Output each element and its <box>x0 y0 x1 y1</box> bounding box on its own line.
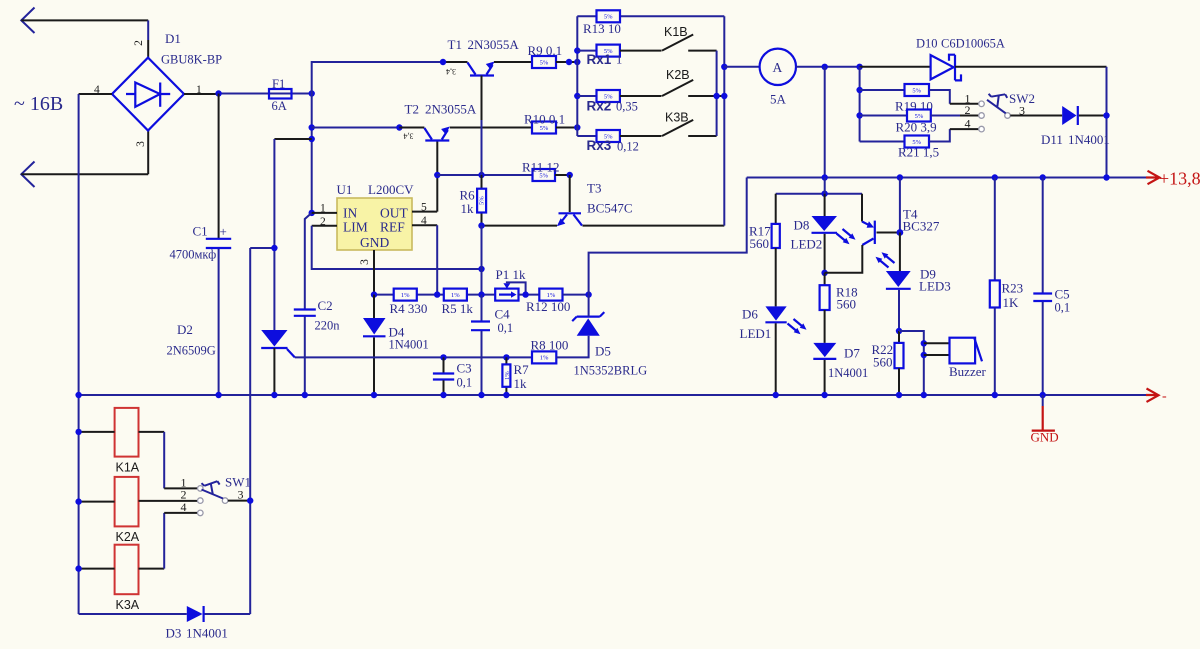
svg-text:1K: 1K <box>1003 295 1020 310</box>
svg-text:BC327: BC327 <box>903 219 940 234</box>
wire rail to LED rail <box>824 178 826 194</box>
junction <box>434 291 440 297</box>
wire R19 bus <box>859 67 861 142</box>
LED D6 <box>765 306 806 395</box>
junction <box>585 291 591 297</box>
LED D8 <box>812 194 856 273</box>
wire Rx2 to K2B <box>620 95 662 97</box>
junction <box>721 93 727 99</box>
thyristor D2 <box>261 330 295 395</box>
wire rail elbow to feedback <box>589 178 747 295</box>
wire D10 to corner <box>955 66 1107 68</box>
wire top rail to T1 <box>312 62 443 94</box>
junction <box>503 354 509 360</box>
wire buzzer leads <box>924 343 950 355</box>
wire AC1 shaft <box>21 19 148 21</box>
junction <box>822 174 828 180</box>
junction <box>75 429 81 435</box>
svg-text:D3: D3 <box>166 626 182 641</box>
junction <box>567 172 573 178</box>
svg-text:R5 1k: R5 1k <box>442 301 474 316</box>
svg-text:1N5352BRLG: 1N5352BRLG <box>574 364 648 378</box>
wire ammeter node down to rail <box>824 67 826 178</box>
svg-text:REF: REF <box>380 220 405 235</box>
relay contact K2B <box>662 80 693 96</box>
wire Rx1 to K1B <box>620 50 662 52</box>
svg-text:L200CV: L200CV <box>368 182 414 197</box>
svg-text:Buzzer: Buzzer <box>949 364 986 379</box>
junction <box>856 112 862 118</box>
capacitor C2 <box>294 213 316 395</box>
junction <box>75 498 81 504</box>
buzzer <box>950 338 983 364</box>
resistor R23 <box>990 178 1000 396</box>
junction <box>1103 174 1109 180</box>
junction <box>773 392 779 398</box>
svg-text:T2: T2 <box>405 102 419 117</box>
svg-text:T3: T3 <box>587 181 601 196</box>
schottky diode D10 <box>931 55 961 81</box>
wire T3 collector to right bus <box>583 225 725 227</box>
svg-text:D8: D8 <box>794 218 810 233</box>
wire Rx left bus <box>576 16 578 136</box>
resistor R6 <box>477 175 486 226</box>
svg-text:1: 1 <box>616 53 622 67</box>
svg-text:D5: D5 <box>595 344 611 359</box>
junction <box>302 392 308 398</box>
output arrow +13,8 <box>1146 171 1160 184</box>
switch SW1 <box>198 481 228 516</box>
svg-text:2N3055A: 2N3055A <box>425 102 477 117</box>
junction <box>992 174 998 180</box>
junction <box>1040 392 1046 398</box>
junction <box>574 59 580 65</box>
wire R21 to SW2 pin4 <box>929 129 950 141</box>
junction <box>822 64 828 70</box>
wire to D10 <box>860 66 931 68</box>
junction <box>821 392 827 398</box>
svg-text:T1: T1 <box>448 37 462 52</box>
svg-text:1N4001: 1N4001 <box>186 626 228 641</box>
wire T3 emitter <box>482 225 558 227</box>
junction <box>856 64 862 70</box>
wire bus to ammeter <box>724 66 759 68</box>
svg-text:K1B: K1B <box>664 25 688 39</box>
wire K2B right <box>688 95 724 97</box>
junction <box>478 172 484 178</box>
wire U1 pin1 <box>312 212 337 214</box>
junction <box>921 352 927 358</box>
transistor T3 <box>557 175 582 226</box>
svg-text:1%: 1% <box>451 292 460 299</box>
junction <box>371 291 377 297</box>
svg-text:U1: U1 <box>337 182 353 197</box>
resistor R22 <box>895 331 904 395</box>
junction <box>721 64 727 70</box>
svg-text:3: 3 <box>359 259 371 265</box>
resistor R12 <box>539 289 562 301</box>
svg-text:R10 0.1: R10 0.1 <box>524 112 565 127</box>
junction <box>215 90 221 96</box>
svg-text:0,1: 0,1 <box>457 376 473 390</box>
svg-text:D7: D7 <box>844 346 860 361</box>
capacitor C1 <box>206 94 231 396</box>
resistor R17 <box>772 194 780 307</box>
svg-text:R13 10: R13 10 <box>583 21 621 36</box>
wire bridge pin3 lead <box>147 131 149 175</box>
resistor R18 <box>820 273 830 343</box>
wire contacts inner bus <box>716 51 718 136</box>
wire T2 collector <box>312 127 400 129</box>
resistor R5 <box>444 289 467 301</box>
relay contact K1B <box>662 35 693 51</box>
svg-text:1%: 1% <box>547 292 556 299</box>
svg-text:LED3: LED3 <box>919 279 951 294</box>
svg-text:1%: 1% <box>401 292 410 299</box>
svg-text:Rx1: Rx1 <box>587 52 612 67</box>
svg-text:D6: D6 <box>742 307 758 322</box>
wire U1 pin4 REF <box>412 224 437 226</box>
svg-text:BC547C: BC547C <box>587 201 633 216</box>
wire P1 to R12 <box>519 294 540 296</box>
ground rail <box>79 394 1146 396</box>
svg-text:R12 100: R12 100 <box>526 299 570 314</box>
resistor Rx3 <box>597 130 620 142</box>
transistor T4 <box>825 194 900 273</box>
svg-text:1k: 1k <box>514 376 528 391</box>
junction <box>1040 174 1046 180</box>
wire AC2 shaft <box>21 173 148 175</box>
svg-text:2N3055A: 2N3055A <box>468 37 520 52</box>
diode D11 <box>1062 106 1078 125</box>
svg-text:K3B: K3B <box>665 110 689 124</box>
svg-text:1N4001: 1N4001 <box>389 338 429 352</box>
junction <box>574 93 580 99</box>
wire K1A to SW1 pin1 <box>139 431 165 433</box>
wire U1 pin2 LIM <box>312 225 337 227</box>
svg-text:5%: 5% <box>479 196 486 205</box>
junction <box>271 392 277 398</box>
wire R19 line <box>860 89 905 91</box>
svg-text:R20 3,9: R20 3,9 <box>896 120 937 135</box>
wire stub to SW1 feed <box>250 247 274 249</box>
svg-text:3,4: 3,4 <box>446 67 456 76</box>
relay coil K3A <box>115 545 139 595</box>
junction <box>247 497 253 503</box>
relay contact K3B <box>662 120 693 136</box>
diode D3 <box>187 606 204 622</box>
svg-text:D1: D1 <box>165 31 181 46</box>
svg-text:560: 560 <box>837 297 857 312</box>
svg-text:Rx2: Rx2 <box>587 99 612 114</box>
resistor Rx2 <box>597 90 620 102</box>
junction <box>478 222 484 228</box>
wire R10 to bus <box>556 127 577 129</box>
svg-text:K3A: K3A <box>116 598 140 612</box>
diode D7 <box>813 343 836 395</box>
svg-text:K2A: K2A <box>116 530 140 544</box>
svg-text:LED1: LED1 <box>740 326 772 341</box>
junction <box>478 291 484 297</box>
svg-text:R21 1,5: R21 1,5 <box>898 145 939 160</box>
resistor R7 <box>502 357 511 395</box>
svg-text:OUT: OUT <box>380 206 408 221</box>
junction <box>1103 112 1109 118</box>
fuse F1 <box>269 89 292 99</box>
junction <box>75 392 81 398</box>
wire R19 to SW2 pin1 <box>929 90 950 104</box>
svg-text:~ 16B: ~ 16B <box>14 93 63 115</box>
wire K3A to SW1 pin4 <box>139 568 165 570</box>
svg-text:4: 4 <box>965 117 971 131</box>
wire K1B right <box>688 50 716 52</box>
wire R20 to SW2 pin2 <box>931 115 960 117</box>
resistor R9 <box>532 56 556 68</box>
capacitor C4 <box>471 295 490 395</box>
svg-text:C4: C4 <box>495 307 511 322</box>
switch SW2 <box>979 94 1011 132</box>
svg-text:4700мкф: 4700мкф <box>170 248 217 262</box>
junction <box>215 392 221 398</box>
resistor R11 <box>533 169 556 181</box>
output arrow minus <box>1146 389 1159 402</box>
wire LED top rail <box>776 193 862 195</box>
svg-text:4: 4 <box>181 500 187 514</box>
wire SW1 feed vertical <box>249 248 251 614</box>
svg-text:K2B: K2B <box>666 68 690 82</box>
svg-text:0,1: 0,1 <box>1055 301 1071 315</box>
junction <box>574 124 580 130</box>
svg-text:D11: D11 <box>1041 132 1063 147</box>
LED D9 <box>876 233 911 332</box>
wire R8 to D5 <box>556 336 588 358</box>
wire +13.8 rail <box>747 177 1146 179</box>
svg-text:R7: R7 <box>514 362 530 377</box>
svg-text:-: - <box>1162 389 1167 404</box>
svg-text:R8 100: R8 100 <box>531 338 569 353</box>
svg-text:C5: C5 <box>1055 287 1070 302</box>
svg-text:LIM: LIM <box>343 220 368 235</box>
resistor R20 <box>907 110 931 122</box>
svg-text:D10: D10 <box>916 37 938 51</box>
junction <box>309 90 315 96</box>
junction <box>271 245 277 251</box>
resistor R19 <box>905 84 930 96</box>
svg-text:3: 3 <box>238 488 244 502</box>
svg-text:LED2: LED2 <box>791 237 823 252</box>
svg-text:5%: 5% <box>540 59 549 66</box>
junction <box>897 174 903 180</box>
junction <box>713 93 719 99</box>
junction <box>992 392 998 398</box>
wire K1A left stub <box>79 431 115 433</box>
ground symbol <box>1032 395 1055 431</box>
wire R13 line <box>577 15 724 17</box>
wire D2 anode branch <box>274 138 311 140</box>
svg-text:GBU8K-BP: GBU8K-BP <box>161 53 222 67</box>
wire R22 node to buzzer <box>899 331 924 395</box>
junction <box>522 291 528 297</box>
svg-text:D2: D2 <box>177 322 193 337</box>
svg-text:+13,8: +13,8 <box>1159 169 1200 189</box>
svg-text:5%: 5% <box>604 14 613 21</box>
svg-text:3: 3 <box>135 141 147 147</box>
wire ammeter right <box>796 66 860 68</box>
resistor Rx1 <box>597 45 620 57</box>
junction <box>503 392 509 398</box>
bridge rectifier D1 <box>112 58 184 131</box>
capacitor C5 <box>1033 178 1052 396</box>
junction <box>309 124 315 130</box>
svg-text:220n: 220n <box>315 319 341 333</box>
wire SW2 pin3 to D11 <box>1010 115 1062 117</box>
wire K2A left stub <box>79 501 115 503</box>
junction <box>434 172 440 178</box>
resistor R21 <box>905 136 930 148</box>
junction <box>821 270 827 276</box>
zener diode D5 <box>572 295 604 336</box>
wire Rx2 line <box>577 95 596 97</box>
wire K2A to SW1 pin2 <box>139 500 198 502</box>
svg-text:560: 560 <box>750 236 770 251</box>
junction <box>75 565 81 571</box>
wire corner down to D11 node <box>1106 67 1108 178</box>
wire Rx1 line <box>577 50 596 52</box>
svg-text:C3: C3 <box>457 361 472 376</box>
svg-text:5A: 5A <box>770 92 787 107</box>
diode D4 <box>363 295 386 395</box>
junction <box>896 392 902 398</box>
wire pin1 to F1 to node <box>184 93 219 95</box>
svg-text:2: 2 <box>965 103 971 117</box>
svg-text:3,4: 3,4 <box>404 132 414 141</box>
svg-text:C2: C2 <box>318 298 333 313</box>
svg-text:2N6509G: 2N6509G <box>167 344 216 358</box>
svg-text:0,1: 0,1 <box>498 321 514 335</box>
junction <box>478 392 484 398</box>
wire right bus <box>723 16 725 225</box>
resistor R8 <box>532 351 556 363</box>
svg-text:0,35: 0,35 <box>616 100 638 114</box>
svg-text:5%: 5% <box>912 87 921 94</box>
wire R4 R5 line <box>374 294 495 296</box>
resistor R13 <box>597 10 621 22</box>
potentiometer P1 <box>495 282 525 300</box>
junction <box>371 392 377 398</box>
svg-text:1N4001: 1N4001 <box>828 366 868 380</box>
svg-text:A: A <box>773 60 783 75</box>
junction <box>478 266 484 272</box>
resistor R4 <box>394 289 417 301</box>
junction <box>821 191 827 197</box>
wire Rx3 to K3B <box>620 135 662 137</box>
wire R20 line <box>860 115 907 117</box>
wire left negative bus <box>78 94 80 614</box>
svg-text:Rx3: Rx3 <box>587 138 612 153</box>
wire bridge pin2 lead <box>147 20 149 40</box>
svg-text:F1: F1 <box>272 77 285 91</box>
relay coil K2A <box>115 477 139 527</box>
junction <box>921 340 927 346</box>
junction <box>566 59 572 65</box>
junction <box>897 229 904 236</box>
junction <box>856 87 862 93</box>
wire SW1 pin3 <box>228 500 250 502</box>
junction <box>309 210 315 216</box>
wire R11 line <box>437 174 532 176</box>
capacitor C3 <box>433 357 454 395</box>
svg-text:R23: R23 <box>1002 281 1024 296</box>
svg-text:2: 2 <box>133 40 145 46</box>
junction <box>921 392 927 398</box>
svg-text:1%: 1% <box>540 355 549 362</box>
junction <box>440 59 446 65</box>
wire R11 to T3 base <box>555 174 570 176</box>
wire D2 gate line <box>295 356 532 358</box>
junction <box>309 136 315 142</box>
junction <box>396 124 402 130</box>
wire U1 pin3 GND <box>373 250 375 295</box>
transistor T1 <box>468 62 495 76</box>
relay coil K1A <box>115 408 139 457</box>
wire R9 to bus <box>556 61 577 63</box>
wire rail to T4 base node <box>899 178 901 233</box>
svg-text:6A: 6A <box>272 99 287 113</box>
wire unregulated vertical F1 to U1 IN <box>311 94 313 213</box>
wire K3A left stub <box>79 568 115 570</box>
AC input arrow 2 <box>21 162 34 188</box>
svg-text:IN: IN <box>343 206 357 221</box>
junction <box>440 392 446 398</box>
wire R21 line <box>860 141 905 143</box>
wire R12 to feedback node <box>563 294 589 296</box>
wire U1 pin5 OUT <box>412 211 437 213</box>
wire D11 to rail corner <box>1079 115 1107 117</box>
svg-text:1k: 1k <box>461 201 475 216</box>
wire Rx3 line <box>577 135 596 137</box>
wire relay bottom <box>79 613 251 615</box>
svg-text:1%: 1% <box>504 371 511 380</box>
junction <box>896 328 902 334</box>
resistor R10 <box>532 122 556 134</box>
svg-text:C1: C1 <box>193 224 208 239</box>
transistor T2 <box>424 127 449 141</box>
junction <box>574 47 580 53</box>
svg-text:P1 1k: P1 1k <box>496 267 526 282</box>
wire T1 emitter to R9 <box>494 61 532 63</box>
regulator U1 L200CV <box>337 198 412 250</box>
wire T1 base down to feedback node <box>481 76 483 121</box>
svg-text:+: + <box>220 224 227 239</box>
svg-text:GND: GND <box>1031 430 1059 445</box>
wire pin4 stub <box>79 93 112 95</box>
svg-text:GND: GND <box>360 235 389 250</box>
wire T2 base to OUT <box>436 141 438 212</box>
svg-text:0,12: 0,12 <box>617 140 639 154</box>
svg-text:R4 330: R4 330 <box>390 301 428 316</box>
wire T2 emitter to R10 <box>450 127 532 129</box>
svg-text:C6D10065A: C6D10065A <box>941 37 1005 51</box>
svg-text:K1A: K1A <box>116 461 140 475</box>
svg-text:R11 12: R11 12 <box>522 160 559 175</box>
svg-text:R9 0.1: R9 0.1 <box>528 43 563 58</box>
AC input arrow 1 <box>21 8 34 34</box>
svg-text:R19 10: R19 10 <box>895 99 933 114</box>
wire K3B right <box>688 135 716 137</box>
svg-text:560: 560 <box>873 355 893 370</box>
svg-text:1N4001: 1N4001 <box>1068 132 1110 147</box>
junction <box>440 354 446 360</box>
